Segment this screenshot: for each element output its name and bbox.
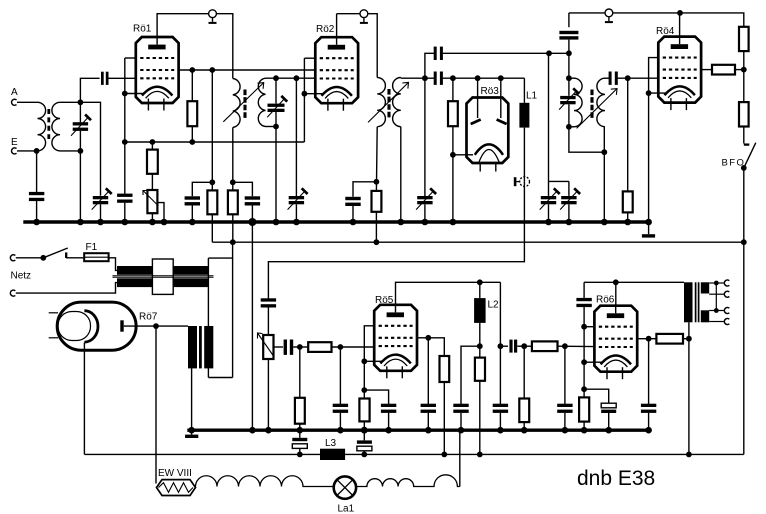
node bus E-cap	[33, 219, 40, 226]
node bottom bus x648	[645, 427, 652, 434]
wire grid trimmer column x296	[295, 78, 297, 196]
resistor cathode Rö5	[359, 399, 369, 422]
wire Rö4 cathode	[649, 92, 666, 94]
wire speaker lead 3	[709, 310, 725, 312]
wire L1 bottom to jack	[523, 128, 525, 182]
wire cap to row1	[583, 307, 585, 397]
node secondary top x276	[273, 75, 279, 81]
capacitor grid coupling Rö4	[609, 72, 618, 85]
wire anode rail corner to coupling	[499, 282, 501, 346]
rail heater DC left	[84, 453, 320, 455]
transformer mains shield box	[152, 259, 173, 294]
tube Rö3	[467, 86, 509, 172]
wire var cap column x425	[424, 78, 426, 196]
wire resistor to bus	[583, 422, 585, 431]
node x604 elbow	[601, 149, 607, 155]
node bottom bus x300	[297, 427, 304, 434]
node cathode tie	[581, 359, 587, 365]
wire Rö1 row1 column	[124, 58, 126, 94]
node grid x628	[625, 75, 631, 81]
node railA x232	[230, 239, 236, 245]
wire bus link column x252	[251, 222, 253, 430]
jack phone detector	[514, 177, 530, 187]
svg-text:Rö2: Rö2	[316, 24, 335, 35]
wire L1 top lead	[523, 78, 525, 103]
resistor Rö3 load	[448, 101, 458, 126]
node rail x192	[189, 139, 195, 145]
terminal Netz 1	[10, 255, 15, 261]
wire cap column x565	[564, 346, 566, 404]
wire cap to resistor	[293, 346, 308, 348]
wire resistor column x524	[523, 346, 525, 398]
terminal Netz 2	[10, 290, 15, 296]
wire grid column upper	[80, 78, 99, 102]
capacitor electrolytic cathode Rö6	[601, 403, 616, 430]
wire rail to resistor	[151, 142, 153, 150]
node cathode rail junction	[122, 139, 128, 145]
wire to x569	[549, 52, 569, 54]
node bus x252 big	[248, 218, 256, 226]
node bus x628	[624, 219, 631, 226]
terminal speaker 2	[724, 291, 729, 297]
capacitor grid bypass Rö6	[557, 404, 572, 413]
node row1 tie	[581, 324, 587, 330]
node bus x400	[398, 219, 405, 226]
wire x569 column upper	[568, 13, 570, 27]
wire anode rail to output transformer	[584, 281, 684, 283]
wire pot wiper return	[157, 203, 164, 222]
wire IFT1 primary bottom column	[232, 127, 234, 190]
wire Rö1 cathode	[125, 93, 143, 95]
potentiometer cathode bias	[143, 190, 159, 213]
inductor L2	[474, 282, 499, 323]
wire Rö5 anode rail	[396, 282, 501, 305]
wire primary bottom stub	[569, 126, 574, 128]
transformer mains primary bars	[117, 266, 208, 275]
node bus x425	[422, 219, 429, 226]
transformer IFT3 core	[590, 90, 593, 119]
wire resistor down to heater rail	[479, 381, 481, 455]
wire cap to bus	[124, 203, 126, 222]
variable capacitor tuning input	[71, 115, 91, 136]
ground chassis bottom bus	[185, 430, 198, 438]
node bottom bus x364	[361, 427, 368, 434]
wire cap to bus	[648, 413, 650, 430]
wire Netz2 to transformer	[16, 283, 117, 294]
wire resistor column x453	[452, 78, 454, 101]
svg-text:EW VIII: EW VIII	[158, 468, 192, 479]
rail A decoupling	[212, 241, 744, 243]
node Rö4 cathode tie	[646, 90, 652, 96]
node bottom bus x191	[188, 427, 195, 434]
wire resistor to primary bottom	[683, 338, 689, 340]
fuse F1	[84, 242, 108, 261]
svg-text:Netz: Netz	[11, 271, 32, 282]
wire L2 to node	[479, 323, 481, 358]
wire secondary top	[60, 101, 80, 103]
node heater rail x480	[477, 452, 483, 458]
node decoupling x212	[209, 179, 215, 185]
wire var cap column	[79, 102, 81, 122]
inductor L1	[519, 90, 537, 127]
wire resistor to bus	[523, 422, 525, 430]
resistor screen feed Rö1	[187, 101, 197, 126]
variable capacitor trimmer input	[92, 188, 112, 209]
svg-text:dnb E38: dnb E38	[577, 467, 655, 490]
wire top right corner	[680, 13, 744, 27]
wire feedback column x584	[583, 282, 585, 298]
node IFT3 primary top	[566, 75, 572, 81]
wire cap column x648	[648, 339, 650, 404]
wire IFT1 secondary top to Rö2 grid	[266, 77, 316, 79]
tube Rö2	[315, 24, 358, 111]
transformer IFT1 primary	[233, 79, 240, 128]
wire Rö1 anode to testpoint	[157, 14, 208, 37]
wire trimmer to bus	[295, 204, 297, 222]
node Rö1 cathode tie	[122, 91, 128, 97]
wire pot wiper to cap	[274, 346, 284, 348]
wire secondary top stub	[605, 77, 610, 79]
tube Rö1	[133, 24, 179, 111]
variable capacitor across IFT3 primary	[559, 78, 579, 127]
node cathode branch	[361, 387, 367, 393]
transformer mains core	[113, 276, 214, 278]
capacitor electrolytic heater 2	[357, 430, 372, 454]
capacitor AF coupling Rö6	[509, 340, 517, 353]
transformer IFT1 core	[243, 90, 246, 119]
node E junction	[34, 148, 40, 154]
resistor grid stop Rö5	[308, 342, 331, 352]
fuse EW VIII	[157, 468, 196, 495]
terminal speaker 4	[724, 319, 729, 325]
wire branch to electrolytic	[584, 389, 609, 403]
node bottom bus x584	[581, 427, 588, 434]
node branch electrolytic	[581, 386, 587, 392]
wire cap to bus	[460, 413, 462, 430]
wire resistor to rail	[735, 69, 744, 71]
tube Rö7	[49, 302, 158, 350]
wire testpoint3 left	[569, 12, 605, 14]
transformer IFT1 secondary	[258, 78, 265, 126]
capacitor tone x461	[453, 404, 468, 413]
transformer IFT2 secondary	[393, 78, 401, 127]
arrow IFT2 tuning	[368, 82, 409, 122]
capacitor antenna earth	[29, 192, 44, 201]
wire IFT2 primary bottom column	[375, 127, 378, 191]
node x565	[562, 343, 568, 349]
node anode rail L2	[477, 279, 483, 285]
wire trimmer to bus	[100, 204, 102, 222]
wire heater winding to bus	[191, 368, 193, 430]
resistor feedback output	[656, 334, 683, 344]
transformer output core	[696, 282, 699, 322]
svg-text:A: A	[11, 87, 18, 98]
wire primary bottom elbow	[569, 127, 604, 152]
wire resistor to railA	[211, 214, 213, 242]
wire Rö4 anode up	[679, 13, 681, 37]
node coupling x500	[498, 343, 504, 349]
resistor grid leak Rö4	[623, 191, 633, 212]
wire heater chain right coils	[356, 475, 460, 487]
svg-text:L1: L1	[526, 90, 538, 101]
variable capacitor grid trim Rö2	[288, 188, 308, 209]
node cathode Rö3	[450, 152, 456, 158]
terminal E	[11, 137, 18, 154]
testpoint 3	[605, 9, 613, 23]
svg-text:Rö1: Rö1	[133, 24, 152, 35]
wire cap1 right	[442, 52, 549, 54]
testpoint 1	[209, 10, 217, 24]
wire osc jumper	[549, 180, 569, 182]
resistor grid series Rö6	[532, 341, 558, 351]
wire EW column	[155, 326, 157, 483]
wire anode to testpoint2	[337, 13, 360, 15]
wire Rö7 anode to heater transformer	[124, 325, 188, 327]
wire switch to railA	[743, 168, 745, 242]
wire Rö2 anode up	[336, 14, 338, 38]
node x453	[450, 75, 456, 81]
node strap bottom	[714, 308, 719, 313]
wire grid leak column	[627, 78, 629, 191]
resistor AVC filter 1	[207, 190, 217, 214]
node bus x648	[645, 219, 652, 226]
wire cap to bus	[388, 413, 390, 430]
wire Rö2 row1 column	[303, 58, 305, 93]
inductor L3	[320, 438, 345, 460]
capacitor BFO coupling	[559, 31, 578, 40]
wire Rö6 row2 right	[637, 338, 648, 340]
node railA x744	[741, 239, 747, 245]
wire x276 to bus	[275, 127, 277, 223]
wire cap to bus	[36, 201, 38, 222]
svg-text:Rö7: Rö7	[139, 311, 158, 322]
wire secondary strap	[715, 283, 717, 311]
wire cap to Rö4 grid	[617, 77, 659, 79]
wire branch to cap2	[233, 182, 253, 196]
wire row2 to resistor	[649, 338, 657, 340]
wire cap to bus	[191, 206, 193, 223]
switch mains	[40, 248, 67, 261]
node bottom bus x524	[521, 427, 528, 434]
wire node to bus	[79, 151, 81, 222]
capacitor x500	[493, 404, 508, 413]
transformer T-input primary	[38, 102, 46, 151]
node AVC x212	[209, 67, 215, 73]
node IFT3 primary bottom	[566, 124, 572, 130]
capacitor series lower	[434, 72, 443, 85]
wire resistor to bus	[363, 421, 365, 430]
node bus x548	[545, 219, 552, 226]
wire secondary link top	[208, 242, 232, 258]
wire Rö5 cathode	[364, 360, 381, 362]
wire grid leak column x300	[299, 347, 301, 398]
node L2 bottom	[477, 343, 483, 349]
resistor right rail upper	[739, 27, 749, 51]
transformer output secondary 1	[701, 282, 709, 293]
svg-text:L2: L2	[488, 299, 500, 310]
wire switch to fuse	[66, 257, 84, 259]
node anode Rö7	[153, 323, 159, 329]
node heater rail x300	[297, 452, 303, 458]
node heater rail x364	[361, 452, 367, 458]
resistor L2 damping	[475, 358, 485, 381]
wire resistor to Rö5 grid	[332, 346, 375, 348]
wire heater chain left coils	[196, 476, 334, 487]
wire Rö6 cathode	[584, 361, 601, 363]
wire branch up to cap1	[425, 53, 435, 78]
node bottom bus x461	[458, 427, 465, 434]
transformer T-input secondary	[52, 102, 60, 151]
wire speaker lead 2	[709, 293, 725, 295]
wire jack to detector rail	[268, 182, 524, 300]
wire Rö7 cathode down	[83, 343, 85, 455]
node x232 decoupling	[230, 179, 236, 185]
node AVC x192	[189, 67, 195, 73]
testpoint 2	[360, 10, 368, 24]
node secondary top	[78, 99, 84, 105]
wire coupling line	[500, 345, 508, 347]
svg-text:L3: L3	[325, 438, 337, 449]
wire cap to node	[517, 345, 532, 347]
wire branch to cap	[192, 182, 212, 196]
resistor grid leak Rö6	[519, 399, 529, 423]
resistor grid leak Rö5	[295, 398, 305, 424]
transformer IFT2 core	[387, 89, 390, 118]
wire Rö4 row1 left	[649, 58, 659, 94]
wire Rö6 anode rail	[615, 282, 617, 305]
capacitor screen bypass Rö5	[421, 404, 436, 413]
node bus x124	[122, 219, 129, 226]
node secondary bottom	[273, 124, 279, 130]
wire Rö6 row1 left	[584, 326, 594, 328]
wire Rö4 cathode column to bus	[648, 93, 650, 222]
capacitor feedback Rö6	[576, 298, 591, 307]
wire cap to bus	[499, 413, 501, 430]
node heater rail x689	[686, 452, 692, 458]
capacitor grid bypass Rö5	[333, 404, 348, 413]
node Rö5 cathode tie	[361, 358, 367, 364]
bus ground bottom	[187, 429, 651, 432]
wire heater chain end up	[459, 430, 461, 486]
node bottom bus x428	[425, 427, 432, 434]
wire secondary bottom	[266, 126, 277, 128]
svg-text:E: E	[11, 137, 18, 148]
node diode lead 1	[475, 75, 481, 81]
wire bottom link	[208, 377, 232, 379]
wire branch left to cap	[461, 346, 480, 404]
tube Rö6	[594, 294, 637, 379]
wire trim to bus	[424, 204, 426, 222]
wire to switch contact	[743, 127, 745, 144]
transformer T-input core	[47, 109, 50, 139]
wire AVC rail y70	[179, 69, 316, 71]
node bottom bus x388	[385, 427, 392, 434]
node bus x453	[450, 219, 457, 226]
node x569	[566, 50, 572, 56]
switch BFO	[722, 143, 756, 171]
svg-text:F1: F1	[86, 242, 98, 253]
wire pot to bus	[151, 213, 153, 222]
wire cap to bus	[427, 413, 429, 430]
tube Rö5	[374, 295, 417, 379]
wire cathode rail	[125, 141, 305, 143]
variable capacitor IFT1 trim	[267, 96, 287, 117]
node railA x376	[374, 239, 380, 245]
wire branch to cap	[364, 390, 388, 404]
wire to switch	[16, 257, 44, 259]
wire var cap to node	[79, 131, 81, 151]
wire right rail down	[743, 242, 745, 454]
wire resistor to pot	[151, 174, 153, 190]
wire IFT3 primary top stub	[569, 77, 574, 79]
wire resistor to railA	[232, 214, 234, 242]
wire Rö5 row1 left	[364, 326, 374, 399]
wire cap column x428	[427, 338, 429, 404]
transformer IFT2 primary	[377, 78, 385, 127]
capacitor series upper	[434, 47, 443, 60]
wire resistor bottom to rail	[191, 126, 193, 142]
node bottom bus x340	[337, 427, 344, 434]
capacitor screen bypass Rö6	[641, 404, 656, 413]
wire cap to Rö1 grid	[109, 77, 136, 79]
node row2 x428	[425, 335, 431, 341]
svg-text:Rö6: Rö6	[596, 294, 615, 305]
wire speaker lead 1	[709, 282, 725, 284]
node heater rail x444	[441, 452, 447, 458]
terminal speaker 3	[724, 308, 729, 314]
arrow IFT3 tuning	[577, 89, 617, 129]
node anode Rö4 top	[677, 10, 683, 16]
node bottom bus x608	[605, 427, 612, 434]
resistor BFO coupling	[712, 65, 735, 75]
wire branch to cap	[353, 182, 376, 197]
capacitor volume coupling	[261, 298, 276, 307]
wire IFT2 secondary bottom to bus	[400, 127, 402, 222]
node bus x80	[77, 219, 84, 226]
node grid x296	[294, 75, 300, 81]
node grid stop x300	[297, 344, 303, 350]
variable capacitor trim x425	[416, 188, 436, 209]
terminal A	[11, 87, 18, 105]
resistor cathode Rö6	[579, 397, 589, 421]
wire testpoint to IFT1 primary	[217, 14, 233, 79]
resistor screen feed Rö5	[440, 356, 450, 382]
wire cap to bus	[564, 413, 566, 430]
transformer output secondary 2	[701, 310, 709, 322]
node bus x353	[350, 219, 357, 226]
wire top branch to trimmer	[80, 102, 100, 196]
node bus x164	[161, 219, 168, 226]
capacitor AVC filter 1	[185, 196, 200, 205]
resistor AVC filter 2	[228, 190, 238, 214]
node bus x296	[293, 219, 300, 226]
node bus x192	[189, 219, 196, 226]
transformer heater bars	[188, 326, 213, 368]
transformer output primary	[684, 282, 693, 322]
wire row2 to resistor	[428, 338, 444, 356]
svg-text:Rö3: Rö3	[481, 86, 500, 97]
wire diode plate leads	[477, 78, 479, 97]
node grid line x425	[422, 75, 428, 81]
wire speaker lead 4	[709, 321, 725, 323]
wire var cap column x276	[275, 78, 277, 103]
variable capacitor osc pad 2	[560, 181, 580, 222]
transformer mains secondary bars	[117, 278, 208, 287]
wire E to junction	[17, 150, 38, 152]
node grid x340	[338, 344, 344, 350]
wire IFT2 secondary top to grid line	[400, 77, 402, 80]
wire resistor to bus	[627, 212, 629, 222]
